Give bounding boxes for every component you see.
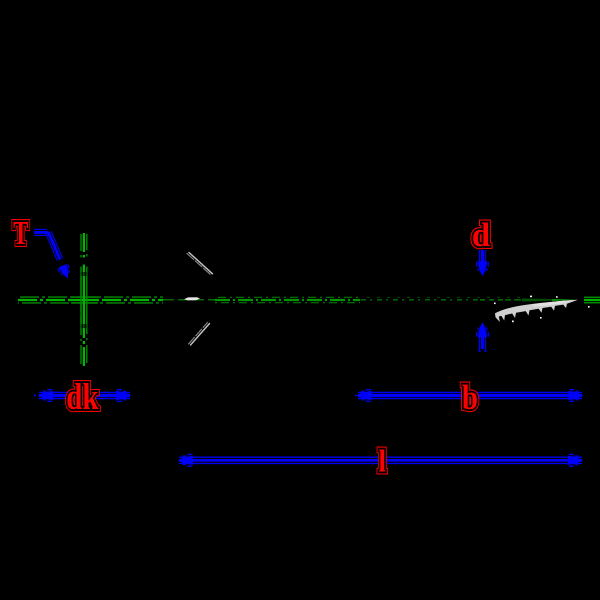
svg-text:d: d bbox=[472, 216, 491, 254]
svg-text:dk: dk bbox=[66, 378, 99, 418]
svg-text:T: T bbox=[13, 214, 28, 252]
svg-text:b: b bbox=[462, 377, 478, 416]
svg-text:l: l bbox=[378, 444, 385, 479]
